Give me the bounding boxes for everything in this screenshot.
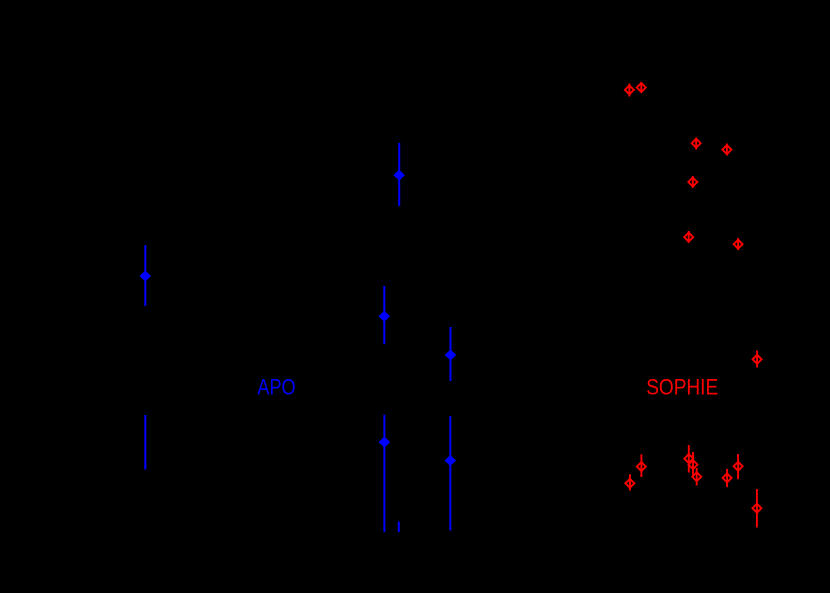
SOPHIE data point R6: error bar xyxy=(688,231,690,243)
SOPHIE data point R12: open diamond marker xyxy=(689,460,698,469)
APO label xyxy=(257,374,295,399)
SOPHIE label xyxy=(646,375,718,400)
SOPHIE data point R9: open diamond marker xyxy=(637,462,646,471)
SOPHIE data point R11: open diamond marker xyxy=(684,454,693,463)
SOPHIE data point R14: error bar xyxy=(726,469,728,487)
SOPHIE data point R13: open diamond marker xyxy=(692,472,701,481)
SOPHIE data point R2: open diamond marker xyxy=(637,83,646,92)
SOPHIE data point R5: error bar xyxy=(692,176,694,188)
SOPHIE data point R10: error bar xyxy=(629,474,631,490)
SOPHIE data point R9: error bar xyxy=(640,454,642,477)
APO data point B1: error bar xyxy=(144,245,146,306)
APO lone error bar segment (marker off-scale) xyxy=(144,415,146,470)
SOPHIE data point R2: error bar xyxy=(640,82,642,93)
APO data point B2: error bar xyxy=(398,143,400,206)
SOPHIE data point R10: open diamond marker xyxy=(625,479,634,488)
SOPHIE data point R7: open diamond marker xyxy=(734,240,743,249)
APO clipped error bar tip at plot bottom edge xyxy=(398,522,400,533)
SOPHIE data point R14: open diamond marker xyxy=(723,473,732,482)
SOPHIE data point R16: open diamond marker xyxy=(752,504,761,513)
APO data point B3: error bar xyxy=(383,286,385,344)
SOPHIE data point R13: error bar xyxy=(696,468,698,486)
SOPHIE data point R5: open diamond marker xyxy=(688,178,697,187)
SOPHIE data point R6: open diamond marker xyxy=(684,233,693,242)
svg-text:SOPHIE: SOPHIE xyxy=(646,375,718,400)
SOPHIE data point R4: open diamond marker xyxy=(722,145,731,154)
SOPHIE data point R7: error bar xyxy=(737,238,739,250)
SOPHIE data point R1: open diamond marker xyxy=(625,85,634,94)
APO data point B5: filled diamond marker xyxy=(380,438,389,447)
SOPHIE data point R3: open diamond marker xyxy=(692,139,701,148)
SOPHIE data point R15: error bar xyxy=(737,454,739,479)
SOPHIE data point R1: error bar xyxy=(628,84,630,97)
SOPHIE data point R4: error bar xyxy=(726,144,728,156)
SOPHIE data point R8: error bar xyxy=(756,351,758,368)
SOPHIE data point R12: error bar xyxy=(692,452,694,477)
SOPHIE data point R15: open diamond marker xyxy=(734,462,743,471)
SOPHIE data point R8: open diamond marker xyxy=(753,355,762,364)
APO data point B6: error bar xyxy=(449,416,451,531)
APO data point B2: filled diamond marker xyxy=(395,171,404,180)
SOPHIE data point R16: error bar xyxy=(756,489,758,528)
SOPHIE data point R11: error bar xyxy=(688,445,690,472)
SOPHIE data point R3: error bar xyxy=(695,138,697,150)
APO data point B3: filled diamond marker xyxy=(380,312,389,321)
svg-text:APO: APO xyxy=(257,374,295,399)
APO data point B5: error bar xyxy=(383,415,385,532)
APO data point B4: error bar xyxy=(450,327,452,381)
APO data point B6: filled diamond marker xyxy=(446,456,455,465)
APO data point B1: filled diamond marker xyxy=(141,272,150,281)
APO data point B4: filled diamond marker xyxy=(446,351,455,360)
